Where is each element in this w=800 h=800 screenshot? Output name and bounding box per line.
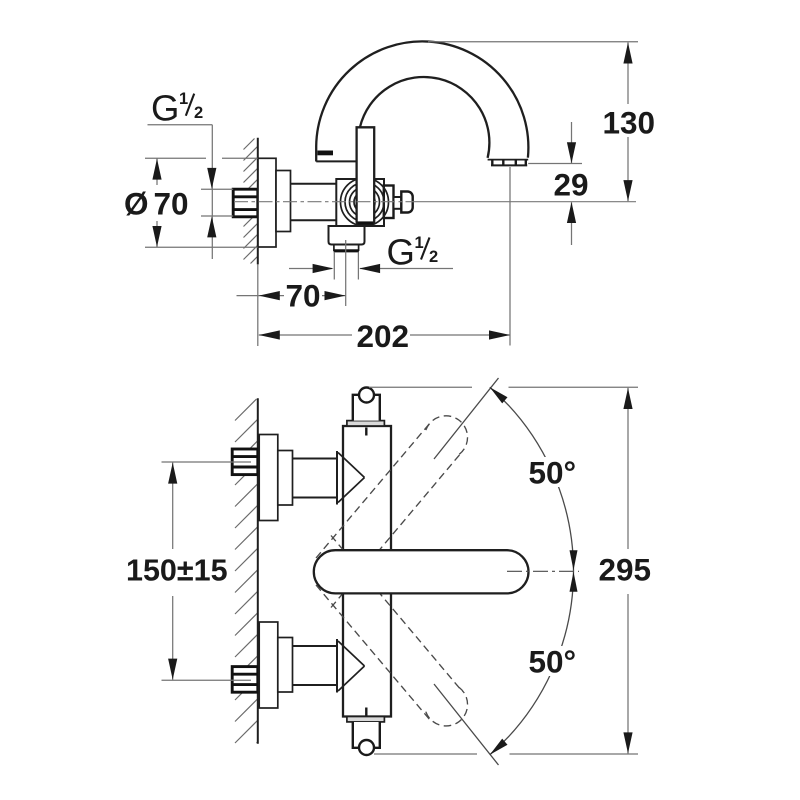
upper escutcheon <box>259 435 278 521</box>
svg-text:1: 1 <box>415 234 424 252</box>
spout set-screw mark <box>318 151 334 156</box>
upper diverter ball <box>359 388 374 403</box>
dim 150 line <box>172 462 174 549</box>
dim 70 arrows <box>259 291 280 300</box>
dim 295 ref line bottom <box>374 753 477 755</box>
wall face extension line <box>257 264 259 346</box>
lower inlet cone seat <box>338 641 365 666</box>
swing arc arrows <box>490 387 508 403</box>
phantom lever upper cap <box>426 416 468 455</box>
dim 295 ref line top <box>369 386 472 388</box>
cartridge bonnet <box>384 186 394 219</box>
svg-text:130: 130 <box>603 104 656 140</box>
svg-text:50°: 50° <box>529 644 577 680</box>
swing arc upper 50deg <box>490 387 574 571</box>
upper s-union pipe <box>293 458 338 460</box>
svg-text:2: 2 <box>194 104 203 122</box>
inlet pipe <box>291 183 337 185</box>
upper diverter neck <box>353 395 380 421</box>
svg-text:Ø: Ø <box>124 186 149 222</box>
dim Ø70 extension lines <box>145 157 206 159</box>
dim 130 reference line top <box>428 41 638 43</box>
dim Ø70 line <box>156 158 158 185</box>
label 50deg lower <box>525 646 577 676</box>
lever handle (front view) <box>314 550 529 593</box>
dim 295 arrows <box>623 388 632 409</box>
flange step <box>276 171 291 232</box>
svg-text:70: 70 <box>286 278 321 314</box>
upper cartridge mark <box>365 428 367 436</box>
upper escutcheon step <box>278 451 293 506</box>
outlet thread extension lines <box>333 252 335 280</box>
wall face line (front view) <box>257 398 259 744</box>
escutcheon flange Ø70 <box>258 158 276 247</box>
swing arc lower 50deg <box>490 571 574 755</box>
phantom lever upper side line <box>316 424 430 558</box>
diverter knob <box>401 192 412 213</box>
svg-text:295: 295 <box>599 552 652 588</box>
svg-text:70: 70 <box>154 186 189 222</box>
spout base line <box>316 160 357 162</box>
dim 295 line <box>627 388 629 549</box>
label 50deg upper <box>525 457 577 487</box>
dim 202 arrows <box>259 330 280 339</box>
outlet thread shoulder <box>334 249 359 252</box>
phantom lever lower side line <box>316 585 430 719</box>
lower escutcheon <box>259 622 278 708</box>
G1/2 outlet arrows <box>289 268 332 270</box>
svg-text:G: G <box>387 232 415 273</box>
dim 29 arrows <box>567 142 576 163</box>
phantom axis lower <box>434 684 499 765</box>
svg-text:G: G <box>151 88 179 129</box>
phantom lever lower second line <box>331 536 463 692</box>
mixer body (front view) <box>343 426 391 717</box>
dim 150 arrows <box>168 463 177 484</box>
wall face line (side view) <box>257 138 259 265</box>
phantom axis upper <box>434 378 499 459</box>
lower escutcheon step <box>278 638 293 693</box>
G1/2 extension lines <box>201 188 233 190</box>
svg-text:150±15: 150±15 <box>126 554 228 588</box>
faucet axis centerline <box>234 201 412 203</box>
dim Ø70 arrows <box>152 159 161 180</box>
upper supply nut <box>232 449 258 475</box>
dim 70 line <box>237 295 285 297</box>
outlet step <box>334 245 359 251</box>
wall hatching (side view) <box>244 139 255 150</box>
spout inner arc <box>360 77 489 158</box>
svg-text:202: 202 <box>357 318 410 354</box>
wall supply tailpiece nut G1/2 <box>233 189 258 217</box>
G1/2 leader lines <box>148 124 213 126</box>
phantom lever upper second line <box>331 451 463 607</box>
spout outlet extension line <box>509 167 511 346</box>
lower supply nut <box>232 667 258 693</box>
dim 29 aerator extension line <box>528 163 582 165</box>
dim 130 arrows <box>623 43 632 64</box>
upper inlet cone seat <box>338 453 365 478</box>
G1/2 arrows <box>207 168 216 189</box>
cartridge rings <box>341 178 389 226</box>
spout outer arc <box>316 41 528 161</box>
valve body <box>336 179 384 226</box>
dim 202 line <box>259 334 352 336</box>
wall hatching (front view) <box>235 399 257 421</box>
lower s-union pipe <box>293 645 338 647</box>
svg-text:29: 29 <box>554 166 589 202</box>
lever axis centerline <box>507 570 579 572</box>
dim 130 line <box>627 42 629 104</box>
outlet axis centerline <box>345 240 347 306</box>
aerator <box>488 159 529 161</box>
lower diverter neck <box>353 722 380 748</box>
lower diverter ball <box>359 740 374 755</box>
dim 150 extension lines <box>162 461 252 463</box>
lower cap flange <box>347 717 385 722</box>
upper cap flange <box>347 421 385 426</box>
svg-text:50°: 50° <box>529 455 577 491</box>
diverter stem <box>394 197 402 209</box>
lever blade <box>357 127 375 224</box>
lower cartridge mark <box>365 708 367 716</box>
svg-text:1: 1 <box>179 90 188 108</box>
dim 29 arrow tails <box>571 122 573 163</box>
outlet housing <box>329 226 365 245</box>
svg-text:2: 2 <box>429 248 438 266</box>
phantom lever lower cap <box>426 687 468 726</box>
